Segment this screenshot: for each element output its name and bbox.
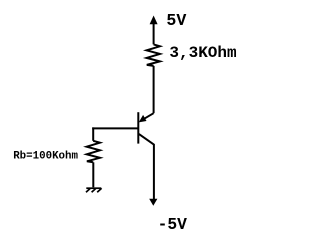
svg-text:3,3KOhm: 3,3KOhm	[169, 44, 237, 62]
svg-text:5V: 5V	[166, 11, 186, 30]
svg-text:Rb=100Kohm: Rb=100Kohm	[13, 150, 78, 162]
svg-text:-5V: -5V	[158, 215, 188, 234]
